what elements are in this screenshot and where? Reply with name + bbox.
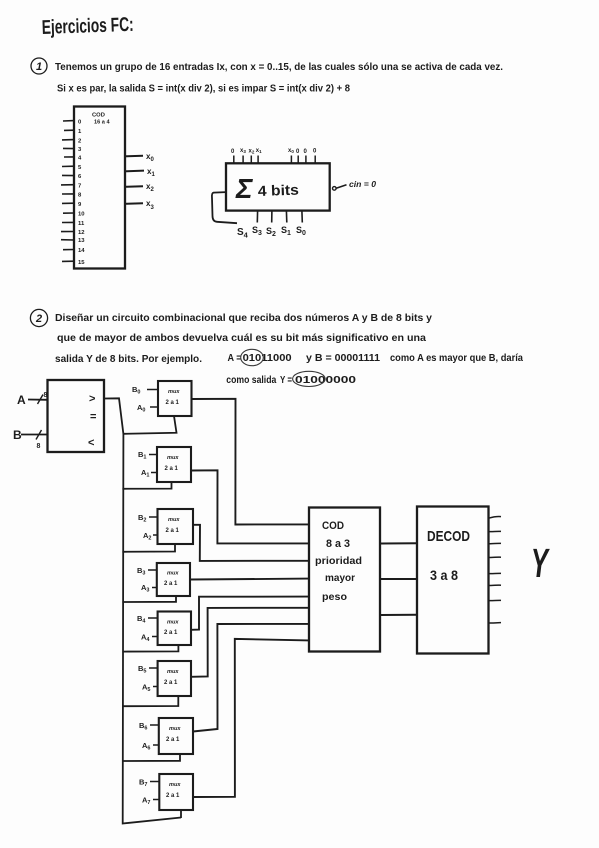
adder carry-out S4 wire bbox=[212, 192, 249, 239]
svg-text:mux: mux bbox=[169, 726, 181, 732]
svg-text:1: 1 bbox=[36, 61, 42, 73]
adder sum outputs S3..S0 bbox=[252, 211, 306, 238]
wire mux5 out to COD in6 bbox=[191, 608, 309, 677]
svg-text:8: 8 bbox=[44, 392, 48, 399]
priority encoder U4 COD 8 a 3 bbox=[309, 508, 380, 652]
encoder U1 COD 16 a 4 box bbox=[74, 107, 125, 269]
mux M0 bbox=[132, 381, 192, 416]
mux M3 bbox=[137, 563, 190, 596]
svg-text:DECOD: DECOD bbox=[427, 528, 470, 545]
decoder output pins (8) bbox=[489, 517, 502, 624]
svg-text:14: 14 bbox=[78, 248, 85, 254]
svg-text:2 a 1: 2 a 1 bbox=[164, 630, 178, 636]
svg-text:Σ: Σ bbox=[235, 173, 253, 204]
svg-text:16 a 4: 16 a 4 bbox=[94, 120, 110, 126]
wire mux6 out to COD in7 bbox=[193, 624, 309, 732]
wires COD to DECOD (3 lines) bbox=[380, 543, 417, 615]
svg-text:13: 13 bbox=[78, 238, 85, 244]
svg-text:COD: COD bbox=[322, 520, 344, 532]
highlight ellipse on Y bits bbox=[293, 371, 326, 386]
svg-text:mux: mux bbox=[167, 455, 179, 461]
svg-text:3 a 8: 3 a 8 bbox=[430, 567, 458, 583]
svg-text:y B = 00001111: y B = 00001111 bbox=[306, 353, 380, 364]
svg-text:cin = 0: cin = 0 bbox=[349, 179, 376, 189]
encoder input ticks I0..I15 with pin numbers bbox=[61, 121, 74, 262]
svg-text:mux: mux bbox=[167, 669, 179, 675]
svg-text:x3: x3 bbox=[240, 148, 246, 154]
svg-text:15: 15 bbox=[78, 260, 85, 266]
svg-text:x0: x0 bbox=[288, 148, 294, 154]
svg-text:2 a 1: 2 a 1 bbox=[164, 581, 178, 587]
svg-text:2 a 1: 2 a 1 bbox=[166, 737, 180, 743]
adder operand B input pins (x0 0 0 0) bbox=[288, 148, 317, 163]
adder U2 sigma 4 bits box bbox=[226, 163, 330, 210]
svg-text:mux: mux bbox=[167, 620, 179, 626]
wire mux1 out to COD in2 bbox=[191, 470, 309, 543]
svg-text:4 bits: 4 bits bbox=[258, 183, 300, 200]
mux M2 bbox=[138, 509, 193, 544]
svg-text:prioridad: prioridad bbox=[315, 555, 362, 567]
wire mux1 select bbox=[122, 482, 171, 489]
wire mux2 out to COD in3 bbox=[193, 525, 309, 561]
wire mux4 select bbox=[122, 645, 178, 652]
exercise 1 number badge bbox=[31, 58, 47, 74]
svg-text:2 a 1: 2 a 1 bbox=[166, 400, 180, 406]
wire mux5 select bbox=[123, 696, 179, 706]
svg-text:salida Y de 8 bits. Por ejempl: salida Y de 8 bits. Por ejemplo. bbox=[55, 354, 202, 365]
svg-text:>: > bbox=[89, 393, 95, 405]
svg-text:Y: Y bbox=[531, 541, 550, 587]
svg-text:=: = bbox=[90, 411, 96, 423]
comparator U3 A/B 8-bit bbox=[13, 380, 104, 452]
svg-text:mayor: mayor bbox=[325, 572, 355, 584]
mux M1 bbox=[138, 447, 191, 482]
wire mux2 select bbox=[122, 544, 175, 552]
svg-text:peso: peso bbox=[322, 591, 347, 603]
adder carry-in cin = 0 bbox=[333, 179, 377, 190]
svg-text:12: 12 bbox=[78, 230, 85, 236]
mux M7 bbox=[139, 774, 193, 810]
wire mux7 select bbox=[180, 810, 182, 819]
svg-text:Diseñar un circuito combinacio: Diseñar un circuito combinacional que re… bbox=[55, 313, 432, 324]
wire mux6 select bbox=[123, 754, 180, 761]
exercise 1 statement text bbox=[55, 62, 503, 95]
wire mux0 select bbox=[123, 416, 176, 434]
svg-text:11: 11 bbox=[78, 221, 85, 227]
svg-text:COD: COD bbox=[92, 113, 105, 119]
svg-text:como A es mayor que B, daría: como A es mayor que B, daría bbox=[390, 353, 523, 364]
svg-text:2 a 1: 2 a 1 bbox=[166, 793, 180, 799]
wire mux3 select bbox=[122, 596, 176, 602]
svg-text:8: 8 bbox=[37, 443, 41, 450]
exercise 2 number badge bbox=[30, 309, 47, 326]
svg-text:mux: mux bbox=[168, 517, 180, 523]
svg-text:que de mayor de ambos devuelva: que de mayor de ambos devuelva cuál es s… bbox=[57, 333, 426, 344]
svg-text:2 a 1: 2 a 1 bbox=[164, 680, 178, 686]
svg-text:A: A bbox=[17, 393, 26, 407]
svg-text:2: 2 bbox=[35, 313, 42, 325]
svg-text:10: 10 bbox=[78, 212, 85, 218]
highlight circle on A bits bbox=[241, 349, 264, 365]
svg-text:B: B bbox=[13, 428, 22, 442]
svg-text:Si x es par, la salida S = int: Si x es par, la salida S = int(x div 2),… bbox=[57, 84, 350, 95]
exercise 2 statement text bbox=[55, 313, 523, 386]
wire mux4 out to COD in5 bbox=[191, 597, 309, 630]
adder operand A input pins (0 x3 x2 x1) bbox=[231, 148, 262, 163]
select bus vertical wire bbox=[123, 434, 181, 824]
wire mux7 out to COD in8 bbox=[193, 639, 309, 797]
svg-text:mux: mux bbox=[168, 389, 180, 395]
svg-text:mux: mux bbox=[167, 571, 179, 577]
svg-text:Y =: Y = bbox=[280, 375, 292, 386]
svg-text:<: < bbox=[88, 437, 94, 449]
svg-text:mux: mux bbox=[169, 782, 181, 788]
svg-text:2 a 1: 2 a 1 bbox=[166, 528, 180, 534]
title "Ejercicios FC:" bbox=[41, 14, 134, 39]
svg-text:Tenemos un grupo de 16 entrada: Tenemos un grupo de 16 entradas Ix, con … bbox=[55, 62, 503, 73]
svg-text:2 a 1: 2 a 1 bbox=[165, 466, 179, 472]
svg-text:como salida: como salida bbox=[226, 375, 276, 386]
mux M6 bbox=[139, 718, 193, 754]
svg-text:01000000: 01000000 bbox=[295, 375, 356, 386]
svg-text:x2: x2 bbox=[249, 149, 255, 155]
svg-text:x1: x1 bbox=[256, 148, 262, 154]
svg-text:8 a 3: 8 a 3 bbox=[326, 538, 350, 550]
wire from comparator greater output bbox=[104, 398, 123, 434]
wire mux0 out to COD in1 bbox=[192, 399, 310, 525]
output label Y bbox=[531, 541, 550, 587]
mux M4 bbox=[137, 612, 191, 646]
svg-text:01011000: 01011000 bbox=[243, 353, 292, 364]
encoder outputs x0..x3 bbox=[125, 152, 155, 211]
decoder U5 DECOD 3 a 8 bbox=[417, 507, 489, 654]
mux M5 bbox=[138, 661, 191, 696]
wire mux3 out to COD in4 bbox=[190, 578, 309, 581]
svg-text:Ejercicios FC:: Ejercicios FC: bbox=[41, 14, 134, 39]
svg-text:A =: A = bbox=[228, 353, 242, 364]
